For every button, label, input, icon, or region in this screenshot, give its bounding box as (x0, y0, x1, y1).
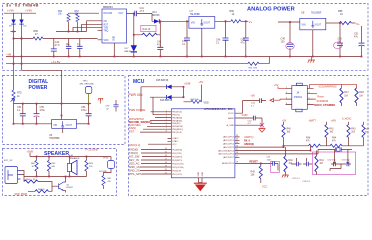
resistor R40 stubs (283, 122, 285, 146)
svg-text:4.7: 4.7 (251, 105, 255, 107)
svg-text:(ADC2)PC2: (ADC2)PC2 (223, 143, 235, 146)
svg-text:R43: R43 (351, 129, 356, 131)
resistor R66 (231, 20, 241, 23)
svg-text:AREF: AREF (228, 117, 234, 120)
svg-text:C57 0.1: C57 0.1 (292, 178, 300, 180)
wires adc sense rows (240, 147, 319, 154)
ground symbol red main (194, 182, 207, 184)
capacitor C57 (297, 162, 299, 167)
transistor Q1 (58, 183, 60, 189)
IC U8 gnd glyph (311, 21, 314, 27)
svg-text:VOUT: VOUT (204, 22, 211, 25)
svg-text:10: 10 (32, 166, 35, 168)
junctions digital bottom rail (13, 123, 15, 125)
svg-text:100n: 100n (267, 159, 273, 161)
svg-text:ABCD(3): ABCD(3) (244, 143, 254, 146)
wire RESET row (240, 162, 279, 164)
wire U8 out (326, 22, 340, 24)
svg-text:+BATT: +BATT (309, 119, 317, 122)
svg-text:R42: R42 (289, 160, 294, 162)
svg-text:4k7: 4k7 (320, 163, 324, 165)
svg-text:D15 BAT46: D15 BAT46 (156, 79, 169, 82)
junction C47 (245, 20, 247, 22)
svg-text:+VIN: +VIN (331, 119, 337, 122)
IC U5 gnd glyph (61, 121, 64, 127)
svg-text:+VB: +VB (6, 53, 11, 57)
resistor R44b (330, 144, 342, 147)
resistor R43 stubs (348, 122, 350, 146)
resistor R56 (339, 21, 351, 24)
capacitor C55 electrolytic (36, 104, 38, 124)
highlight box R44 (141, 25, 156, 31)
left rail verticals (14, 39, 22, 71)
capacitor C51 electrolytic (361, 26, 363, 57)
junction at C44 (133, 13, 135, 15)
svg-text:V+: V+ (249, 20, 253, 24)
svg-text:+5V: +5V (282, 119, 287, 122)
wire j4 row3 (314, 98, 317, 100)
resistor R44 (142, 33, 157, 36)
svg-text:1M: 1M (359, 94, 362, 97)
resistor R45 (259, 166, 262, 179)
wire D7 to gnd bus (133, 52, 135, 57)
svg-text:MCU: MCU (133, 79, 145, 85)
resistor R60 stub (36, 157, 38, 177)
svg-text:+VIN: +VIN (25, 8, 32, 12)
net flag arrow left (270, 99, 274, 102)
net labels rows group B (129, 147, 142, 176)
wire j4 row2 (314, 93, 318, 95)
capacitor C47 (245, 21, 247, 56)
svg-text:3k3: 3k3 (330, 132, 334, 134)
divider bottom bus (284, 145, 364, 147)
resistor R42b (284, 156, 287, 172)
svg-text:R40: R40 (287, 129, 292, 131)
svg-text:47k: 47k (332, 141, 337, 143)
svg-text:A_GND: A_GND (226, 124, 234, 127)
svg-text:22: 22 (236, 156, 238, 158)
svg-text:10k: 10k (251, 174, 256, 177)
svg-text:SND_PWM: SND_PWM (15, 193, 27, 196)
speaker mid rail (24, 176, 87, 178)
resistor R47 (340, 88, 343, 103)
svg-text:1M: 1M (344, 94, 347, 97)
wire TP10 to R67 (104, 169, 112, 176)
junction U5 top feed (61, 115, 63, 117)
wire xtal from chip (317, 150, 319, 154)
svg-text:C52 33p: C52 33p (328, 160, 337, 162)
testpoint TP10 symbol (108, 161, 115, 169)
svg-text:J4: J4 (296, 90, 299, 94)
svg-text:VIN: VIN (53, 124, 57, 127)
svg-text:SVCC: SVCC (228, 113, 234, 115)
resistor R68 (191, 100, 201, 103)
bus mid rail y31.5 (11, 31, 87, 33)
wire U8 input down to bus (289, 22, 291, 57)
svg-text:10n: 10n (66, 43, 71, 46)
wire U6 pin1 (87, 21, 98, 32)
svg-text:28: 28 (236, 152, 238, 154)
resistor R48 bottom stub (356, 103, 358, 106)
svg-text:D5: D5 (9, 26, 13, 28)
svg-text:+5VB: +5VB (184, 82, 191, 86)
testpoint TP11 symbol (86, 87, 92, 94)
svg-text:2: 2 (286, 87, 287, 89)
connector J4 notch (296, 109, 302, 112)
svg-text:A_HCNC: A_HCNC (342, 118, 352, 121)
svg-text:SCK/MOSI: SCK/MOSI (317, 100, 329, 103)
resistor R48 (355, 88, 358, 103)
svg-text:TP10: TP10 (103, 157, 109, 159)
capacitor C52 (334, 162, 336, 167)
wire OUT to cap C44 (127, 13, 153, 15)
diode D14 (154, 19, 159, 23)
svg-text:VCC: VCC (262, 185, 268, 189)
wire C44 to D14 (151, 14, 153, 22)
svg-text:C43: C43 (251, 103, 256, 105)
svg-text:0.1: 0.1 (216, 42, 220, 45)
svg-text:Q1: Q1 (67, 184, 71, 186)
svg-text:Reset: Reset (318, 95, 325, 98)
svg-text:R68 10k: R68 10k (191, 99, 200, 101)
svg-text:PB1(T1): PB1(T1) (172, 115, 180, 117)
svg-text:TP11: TP11 (83, 80, 89, 82)
capacitor C45 (159, 35, 161, 57)
capacitor C54 (22, 104, 24, 124)
IC U1 right pin stubs (235, 137, 240, 164)
gnd bus top section (6, 56, 362, 58)
svg-text:POWER: POWER (29, 85, 48, 91)
resistor R53 (76, 14, 79, 22)
svg-text:R67: R67 (108, 178, 113, 180)
junction U7 out (225, 20, 227, 22)
svg-text:R66 1k: R66 1k (38, 189, 46, 191)
svg-text:+VIN: +VIN (7, 8, 14, 12)
svg-text:(ADC1)PC1: (ADC1)PC1 (223, 139, 235, 142)
svg-text:23: 23 (236, 135, 238, 137)
wires bypass caps (291, 158, 312, 164)
connector J4 left stubs (286, 88, 292, 104)
resistor R50 (33, 37, 43, 40)
crystal Q2 symbol (335, 147, 341, 151)
svg-text:PD7(OC2): PD7(OC2) (172, 174, 182, 176)
highlight box reset cap (271, 161, 280, 172)
svg-text:PB2(AIN0): PB2(AIN0) (172, 116, 182, 119)
highlight ellipse C52e (334, 42, 342, 49)
svg-text:47u: 47u (354, 35, 359, 38)
svg-text:RESET: RESET (250, 161, 259, 164)
capacitor C46 (225, 21, 227, 56)
capacitor C48 on U7 input (186, 21, 188, 56)
junctions divider (283, 146, 285, 148)
wire R70 bottom to rail (13, 100, 15, 104)
resistor R40 (282, 125, 285, 138)
resistor R46 (309, 144, 321, 147)
svg-text:47k: 47k (306, 141, 311, 143)
svg-text:100: 100 (89, 166, 93, 168)
svg-text:0.1: 0.1 (77, 43, 81, 46)
capacitor C53 (347, 162, 349, 167)
connector EXT_SP body (5, 167, 18, 184)
wire jack to rails (21, 171, 25, 177)
svg-text:R49: R49 (365, 129, 370, 131)
svg-text:7: 7 (309, 103, 310, 105)
svg-text:29: 29 (236, 162, 238, 164)
testpoint TP11 stub (88, 94, 90, 104)
svg-text:PB7(SCK): PB7(SCK) (172, 132, 182, 134)
svg-text:47: 47 (106, 108, 109, 110)
svg-text:PB0(XCK): PB0(XCK) (172, 112, 182, 114)
svg-text:47.5: 47.5 (55, 44, 60, 47)
svg-text:XTAL2: XTAL2 (172, 137, 179, 140)
svg-text:PD2(INT0): PD2(INT0) (172, 156, 182, 158)
connector J4 pin numbers (286, 87, 310, 105)
second rail +11.8V (6, 57, 269, 64)
connector EXT_SP inner contact (8, 170, 13, 180)
svg-text:DSC343: DSC343 (104, 13, 113, 15)
svg-text:C41: C41 (267, 157, 272, 159)
svg-text:D16 BAT46: D16 BAT46 (160, 99, 173, 102)
IC U7 body (189, 17, 215, 29)
svg-text:U8: U8 (301, 11, 305, 15)
svg-text:47.5: 47.5 (140, 11, 145, 13)
svg-text:GND: GND (202, 171, 204, 176)
wire R56 to V+ (351, 22, 355, 24)
wire vcc row (148, 143, 168, 145)
svg-text:PD1(TXD): PD1(TXD) (172, 153, 182, 155)
svg-text:47: 47 (35, 33, 38, 36)
wire J4 left feeds (278, 87, 286, 89)
svg-text:470u: 470u (40, 109, 46, 112)
IC U6 left pin stubs (98, 21, 103, 40)
resistor R61s stub (48, 157, 50, 177)
resistor R41 stubs (326, 122, 328, 146)
svg-text:PROG: PROG (294, 95, 302, 99)
svg-text:SEL GROUND: SEL GROUND (80, 83, 95, 85)
capacitor C57d (115, 100, 117, 112)
wire R67 bottom (103, 186, 105, 190)
wire R68 (184, 85, 202, 102)
wire R44 connections (134, 21, 161, 35)
svg-text:(ADC3)PC3: (ADC3)PC3 (223, 146, 235, 149)
svg-text:R46: R46 (306, 138, 311, 140)
ground marker pink x (260, 123, 264, 127)
connector EXT_SP pins (18, 171, 21, 180)
capacitor C43 (260, 98, 262, 103)
resistor R70 (12, 90, 15, 100)
frame: digital power section border (3, 76, 126, 145)
digital top rail (14, 103, 92, 105)
svg-text:24: 24 (236, 139, 238, 141)
svg-text:(ADC6)PC7: (ADC6)PC7 (223, 156, 235, 159)
net flag arrow digital (11, 99, 15, 102)
svg-text:GND: GND (198, 171, 200, 176)
svg-text:(ADC5/SCL)PC5: (ADC5/SCL)PC5 (218, 153, 234, 156)
wire +5VB drop (183, 87, 185, 97)
svg-text:TP_SOUND: TP_SOUND (85, 148, 98, 151)
svg-text:ON: ON (104, 21, 108, 23)
IC U1 left pin stubs group B (168, 150, 172, 175)
wire reset cap down (277, 163, 279, 170)
diode D7 (131, 45, 137, 52)
crystal highlight box (313, 152, 356, 175)
svg-text:10k: 10k (58, 13, 63, 15)
wire pwr key row (141, 86, 184, 88)
IC U1 MCU body (171, 109, 235, 178)
wire A_GND (235, 124, 262, 126)
junctions on gnd bus (53, 56, 55, 58)
wire R66 to V+ (241, 20, 248, 22)
capacitor C42a (253, 116, 255, 121)
connector J4 tab (296, 83, 302, 85)
IC U8 body (300, 18, 326, 29)
wire D14 to U7 (152, 20, 189, 22)
svg-text:C42: C42 (248, 120, 253, 122)
svg-text:PB5(MOSI): PB5(MOSI) (172, 126, 183, 128)
IC U7 gnd glyph (200, 19, 203, 25)
wire j4 row4 (313, 104, 315, 106)
speaker LS1 symbol (67, 164, 71, 172)
svg-text:ANALOG POWER: ANALOG POWER (247, 7, 295, 13)
capacitor C50 (339, 23, 341, 57)
resistor R65h (35, 190, 49, 193)
junction C50 (339, 22, 341, 24)
wire U5 gnd (62, 128, 64, 133)
wires rows group A (140, 112, 168, 132)
svg-text:R44: R44 (332, 138, 337, 140)
junction rails (13, 56, 15, 58)
IC U1 left pin stubs group A (168, 112, 172, 132)
junctions digital top rail (22, 103, 24, 105)
wire diode drops (14, 13, 22, 38)
svg-text:VOUT: VOUT (66, 124, 73, 127)
frame: top power section border (3, 4, 369, 71)
diode D5 (11, 20, 15, 25)
wire down to diode D7 (133, 14, 135, 46)
crystal wires (318, 150, 352, 162)
capacitor C41r (273, 161, 275, 166)
svg-text:PD6(ICP): PD6(ICP) (172, 170, 181, 172)
resistor R64h (24, 180, 38, 183)
svg-text:3: 3 (309, 92, 310, 94)
diode D15 (166, 85, 171, 89)
svg-text:+5V: +5V (199, 80, 204, 84)
wire divider bottoms (69, 22, 78, 32)
svg-text:3k3: 3k3 (287, 132, 291, 134)
wire U6 gnd to bus (113, 43, 115, 57)
resistor R41 (325, 125, 328, 138)
svg-text:TRQ: TRQ (104, 30, 109, 32)
resistor R42b stubs (285, 147, 287, 175)
svg-text:VIN: VIN (302, 23, 306, 26)
wire U8 input (278, 21, 300, 23)
svg-text:R44: R44 (320, 160, 325, 162)
svg-text:C45: C45 (157, 41, 162, 43)
svg-text:TVB: TVB (104, 27, 109, 29)
svg-text:OUT: OUT (119, 13, 124, 15)
svg-text:+11.8V: +11.8V (51, 60, 60, 64)
svg-text:47k: 47k (108, 181, 112, 183)
junction reset (260, 163, 262, 165)
svg-text:(ADC4/SDA)PC4: (ADC4/SDA)PC4 (218, 149, 235, 152)
svg-text:PB6(MISO): PB6(MISO) (172, 129, 183, 131)
digital bottom rail left (14, 104, 52, 124)
svg-text:PB3(AIN1): PB3(AIN1) (172, 119, 182, 122)
svg-text:VCC/AVR/PROG: VCC/AVR/PROG (319, 86, 337, 89)
connector J4 right stubs (307, 88, 313, 104)
svg-text:26: 26 (236, 145, 238, 147)
svg-text:VDD: VDD (104, 40, 109, 42)
IC U1 right pin numbers (236, 135, 238, 164)
IC U5 body (52, 120, 77, 129)
svg-text:PD3(INT1): PD3(INT1) (172, 160, 182, 162)
diode D16 (166, 95, 171, 99)
svg-text:AT90MEGA8A_DIL: AT90MEGA8A_DIL (204, 107, 233, 111)
svg-text:SPEAKER: SPEAKER (70, 157, 80, 160)
svg-text:C44: C44 (140, 8, 145, 10)
svg-text:1k: 1k (17, 95, 20, 98)
resistor R44m stubs (316, 151, 318, 175)
junctions mid rail (13, 31, 15, 33)
wire AREF (235, 118, 262, 125)
svg-text:R63: R63 (89, 163, 94, 165)
svg-text:SCK/X_CTX/MISO: SCK/X_CTX/MISO (314, 104, 335, 107)
svg-text:8: 8 (286, 103, 287, 105)
junctions mid rail (36, 176, 38, 178)
capacitor C40 (53, 39, 55, 57)
svg-text:47u: 47u (241, 42, 246, 45)
capacitor C56 (88, 104, 90, 124)
resistor R61s (47, 160, 50, 171)
resistor R49 stubs (363, 122, 365, 146)
wire arrow to J4 (274, 99, 286, 100)
ground arrow red small left (282, 175, 289, 177)
wire left rail into digital section (13, 64, 15, 90)
junction C48 (186, 20, 188, 22)
wire U6 pin2 (82, 24, 98, 31)
speaker LS1 stubs (69, 157, 71, 177)
svg-text:470u: 470u (81, 109, 87, 112)
junctions speaker rail (36, 156, 38, 158)
svg-text:RESET/PC6: RESET/PC6 (222, 163, 235, 165)
svg-text:C53 33p: C53 33p (342, 160, 351, 162)
wire U7 gnd stub (201, 28, 203, 56)
junction diodes (13, 38, 15, 40)
ground arrow red agnd (259, 127, 265, 132)
svg-text:VOUT: VOUT (315, 23, 322, 26)
IC U6 body (102, 9, 127, 43)
wire R64h to base (38, 182, 59, 187)
svg-text:78L05BF: 78L05BF (190, 12, 201, 16)
svg-text:25: 25 (236, 142, 238, 144)
svg-text:GND: GND (114, 36, 116, 41)
svg-text:(ADC0)PC0: (ADC0)PC0 (223, 136, 235, 139)
resistor R45 wires (260, 163, 262, 183)
svg-text:78M05BF: 78M05BF (49, 137, 60, 140)
svg-text:BAT46: BAT46 (153, 14, 161, 17)
frame: mcu section border (129, 76, 369, 196)
svg-text:D14: D14 (153, 12, 158, 14)
wire SVCC (235, 101, 266, 114)
highlight ellipse C49 (286, 43, 294, 50)
svg-text:XTAL1: XTAL1 (172, 140, 179, 143)
svg-text:R60: R60 (31, 163, 36, 165)
resistor R63 (85, 160, 88, 171)
svg-text:PD5(OC1A): PD5(OC1A) (172, 166, 183, 169)
svg-text:3v '03 TMB4B: 3v '03 TMB4B (6, 3, 39, 8)
svg-text:PPS_GPS: PPS_GPS (129, 172, 142, 176)
svg-text:C57: C57 (106, 106, 111, 108)
